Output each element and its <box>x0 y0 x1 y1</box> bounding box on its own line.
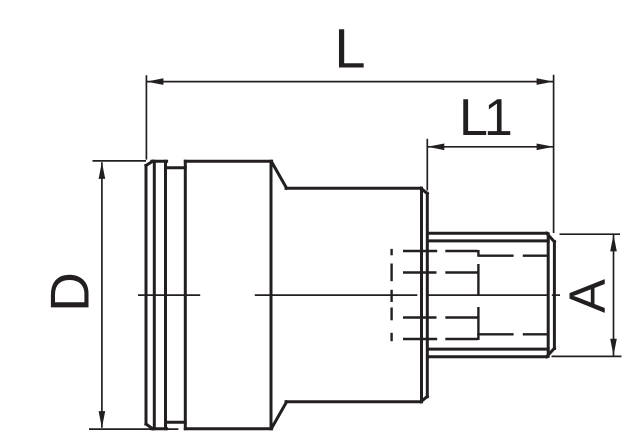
svg-text:D: D <box>39 272 101 312</box>
svg-text:A: A <box>559 279 616 313</box>
svg-text:L1: L1 <box>459 89 511 147</box>
svg-text:L: L <box>334 16 365 79</box>
